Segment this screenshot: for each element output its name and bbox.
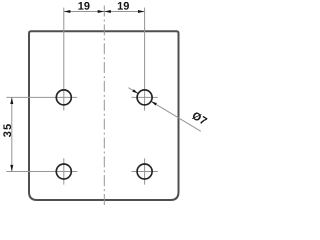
crosshair vertical hole bottom-left [63, 158, 65, 184]
plate outline [29, 31, 179, 200]
arrowhead dim19 middle-left [98, 10, 105, 13]
dimension line 35 left [11, 97, 13, 171]
dim text 19 left [78, 2, 89, 10]
dim text diameter 7 [192, 113, 208, 124]
hole bottom-left [56, 164, 71, 179]
dim text 35 [3, 124, 11, 137]
crosshair horizontal hole bottom-right [132, 171, 158, 173]
leader line diameter 7 [129, 88, 139, 94]
dimension line 19+19 top [64, 11, 145, 13]
hole top-left [56, 90, 71, 105]
arrowhead leader lower-right [151, 101, 157, 105]
extension line left hole column [63, 8, 65, 111]
arrowhead dim19 right [138, 10, 145, 13]
arrowhead dim35 top [10, 97, 13, 104]
crosshair horizontal hole top-right [132, 96, 158, 98]
arrowhead leader upper-left [132, 89, 138, 93]
crosshair vertical hole bottom-right [144, 158, 146, 184]
centerline bottom holes row [6, 171, 77, 173]
centerline top holes row [6, 96, 77, 98]
arrowhead dim35 bottom [10, 165, 13, 172]
arrowhead dim19 left [64, 10, 71, 13]
dim text 19 right [118, 2, 129, 10]
hole top-right [137, 90, 152, 105]
hole bottom-right [137, 164, 152, 179]
extension line right hole column [144, 8, 146, 111]
arrowhead dim19 middle-right [104, 10, 111, 13]
vertical dash-dot centerline [103, 6, 105, 209]
